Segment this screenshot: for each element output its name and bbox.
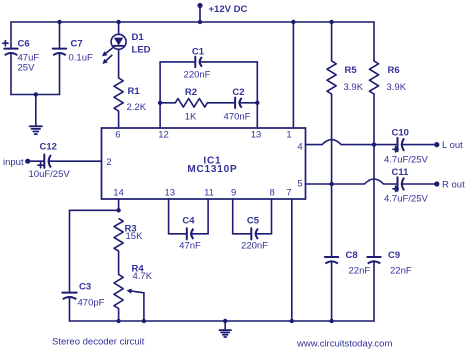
pin 6 label (115, 130, 120, 141)
svg-text:D1: D1 (132, 32, 145, 43)
pin 4 label (297, 142, 302, 153)
svg-text:13: 13 (165, 187, 176, 198)
wire C10 to L out (401, 144, 436, 146)
svg-text:9: 9 (231, 187, 236, 198)
svg-text:C9: C9 (388, 250, 400, 261)
pin 8 label (270, 187, 275, 198)
node bottom ground junction (223, 319, 227, 323)
capacitor C10 (384, 127, 428, 165)
wire R5 top lead (331, 22, 333, 61)
pin 2 label (106, 157, 111, 168)
wire C6 bottom lead (10, 54, 12, 95)
wire C6-C7 bottom join (11, 94, 60, 96)
wire pin14 stub (118, 199, 120, 210)
svg-text:4.7K: 4.7K (133, 271, 153, 282)
svg-text:C1: C1 (192, 47, 205, 58)
wire C12 to pin2 (48, 160, 101, 162)
wire R3-R4 (118, 251, 120, 275)
svg-text:10uF/25V: 10uF/25V (29, 169, 71, 180)
pin 7 label (286, 187, 291, 198)
node wiper bottom junction (142, 319, 146, 323)
capacitor C4 (179, 216, 201, 252)
svg-text:22nF: 22nF (349, 266, 371, 277)
svg-text:C3: C3 (79, 282, 91, 293)
svg-text:R1: R1 (128, 86, 141, 97)
node C7 rail junction (57, 20, 61, 24)
capacitor C8 (325, 250, 370, 277)
resistor R4 (preset) (114, 264, 153, 309)
wire hop over R5 (322, 140, 341, 145)
wire C9 bottom lead (373, 262, 375, 321)
wire top supply rail (11, 21, 374, 23)
resistor R3 (114, 219, 143, 252)
wire R2-C2 (207, 102, 235, 104)
svg-text:www.circuitstoday.com: www.circuitstoday.com (296, 339, 392, 350)
wire C3 top lead (69, 210, 71, 292)
R4 wiper arm (127, 289, 144, 322)
wire hop over R6 (365, 179, 384, 184)
svg-text:220nF: 220nF (184, 70, 211, 81)
node input terminal (3, 157, 30, 168)
svg-text:Stereo decoder circuit: Stereo decoder circuit (52, 337, 145, 348)
svg-text:6: 6 (115, 130, 120, 141)
wire R4 bottom lead (118, 309, 120, 322)
svg-text:4: 4 (297, 142, 302, 153)
wire bottom ground stem (224, 321, 226, 329)
capacitor C2 (224, 87, 251, 123)
wire C1 right (199, 61, 257, 63)
node R out terminal (434, 180, 465, 191)
wire R6 down (373, 94, 375, 257)
svg-text:5: 5 (297, 179, 302, 190)
svg-text:3.9K: 3.9K (387, 82, 407, 93)
svg-text:4.7uF/25V: 4.7uF/25V (384, 194, 428, 205)
svg-text:C4: C4 (182, 216, 195, 227)
svg-text:470nF: 470nF (224, 112, 251, 123)
node R2 left junction (158, 101, 162, 105)
svg-text:2.2K: 2.2K (127, 102, 147, 113)
wire pin9 stub (232, 199, 234, 234)
wire pin11 stub (207, 199, 209, 234)
pin 13 label (bottom) (165, 187, 176, 198)
svg-text:R6: R6 (388, 65, 400, 76)
node R5 pin5 junction (329, 182, 333, 186)
svg-text:13: 13 (251, 130, 262, 141)
svg-text:LED: LED (132, 45, 151, 56)
wire to C11 (384, 183, 398, 185)
svg-text:R out: R out (442, 180, 465, 191)
resistor R6 (369, 61, 406, 94)
wire C6 top lead (10, 22, 12, 49)
svg-text:220nF: 220nF (241, 241, 268, 252)
resistor R5 (327, 61, 364, 94)
node pin7 bottom junction (290, 319, 294, 323)
wire C1 left (160, 61, 195, 63)
svg-text:C6: C6 (18, 39, 30, 50)
wire pin4 to R6 (341, 144, 374, 146)
ground (30, 126, 42, 134)
svg-text:MC1310P: MC1310P (187, 164, 237, 175)
node ground junction (34, 92, 38, 96)
svg-text:+12V DC: +12V DC (209, 4, 248, 15)
svg-text:15K: 15K (126, 231, 144, 242)
wire C11 to R out (401, 183, 436, 185)
resistor R2 (175, 87, 207, 123)
capacitor C1 (184, 47, 211, 81)
svg-text:11: 11 (204, 187, 214, 198)
wire pin5 to R6 (332, 183, 365, 185)
wire C7 bottom lead (59, 54, 61, 95)
pin 14 label (113, 187, 124, 198)
svg-text:47nF: 47nF (179, 241, 201, 252)
wire R5 down (331, 94, 333, 257)
svg-text:1: 1 (286, 130, 291, 141)
wire C5 left (233, 233, 252, 235)
pin 11 label (204, 187, 214, 198)
wire pin14 to C3 branch (70, 209, 119, 211)
node L out terminal (434, 140, 463, 151)
wire pin13 riser (256, 62, 258, 128)
node D1 rail junction (116, 20, 120, 24)
svg-text:C11: C11 (392, 167, 410, 178)
svg-text:C5: C5 (247, 216, 260, 227)
svg-text:0.1uF: 0.1uF (69, 53, 93, 64)
wire pin12 riser (159, 62, 161, 128)
svg-text:3.9K: 3.9K (344, 82, 364, 93)
wire R1-pin6 (118, 111, 120, 128)
wire C4 right (191, 233, 208, 235)
capacitor C7 (53, 39, 93, 64)
ground (219, 330, 231, 337)
caption: Stereo decoder circuit (52, 337, 145, 348)
LED D1 (102, 32, 151, 64)
svg-text:14: 14 (113, 187, 124, 198)
svg-text:7: 7 (286, 187, 291, 198)
wire R6 to C10 (374, 144, 398, 146)
pin 13 label (251, 130, 262, 141)
wire pin1 to rail (292, 22, 294, 128)
node R4 bottom junction (116, 319, 120, 323)
wire D1 top lead (118, 22, 120, 34)
pin 1 label (286, 130, 291, 141)
pin 9 label (231, 187, 236, 198)
wire pin13 stub (168, 199, 170, 234)
svg-text:2: 2 (106, 157, 111, 168)
wire input to C12 (28, 160, 45, 162)
wire ground stem (35, 95, 37, 126)
wire pin8 stub (271, 199, 273, 234)
svg-text:470pF: 470pF (78, 298, 105, 309)
wire C2 right lead (239, 102, 257, 104)
node pin14 junction (116, 208, 120, 212)
capacitor C5 (241, 216, 268, 252)
node R5 rail junction (329, 20, 333, 24)
svg-text:C10: C10 (392, 127, 409, 138)
wire pin5 out (306, 183, 332, 185)
svg-text:C2: C2 (232, 87, 244, 98)
node C2 right junction (255, 101, 259, 105)
wire C7 top lead (59, 22, 61, 49)
wire pin7 down (291, 199, 293, 321)
wire R2 left lead (160, 102, 175, 104)
svg-text:25V: 25V (18, 63, 36, 74)
svg-text:4.7uF/25V: 4.7uF/25V (384, 155, 428, 166)
+12V DC supply terminal (197, 3, 247, 24)
wire bottom rail (70, 320, 375, 322)
resistor R1 (114, 78, 147, 113)
svg-text:C12: C12 (40, 142, 57, 153)
capacitor C9 (367, 250, 412, 277)
wire C5 right (255, 233, 271, 235)
capacitor C12 (29, 142, 71, 181)
svg-text:8: 8 (270, 187, 275, 198)
node C8 bottom junction (329, 319, 333, 323)
svg-text:C7: C7 (71, 39, 83, 50)
node R6 pin4 junction (372, 142, 376, 146)
capacitor C11 (384, 167, 428, 205)
pin 5 label (297, 179, 302, 190)
wire R6 top lead (373, 22, 375, 61)
svg-text:12: 12 (158, 130, 169, 141)
svg-text:R2: R2 (185, 87, 197, 98)
capacitor C6 (3, 39, 40, 74)
wire D1-R1 (118, 49, 120, 78)
node pin1 rail junction (291, 20, 295, 24)
wire C4 left (169, 233, 187, 235)
svg-text:22nF: 22nF (390, 266, 412, 277)
svg-text:1K: 1K (185, 112, 197, 123)
op-amp U1 body: IC1 MC1310P (102, 128, 306, 199)
caption: www.circuitstoday.com (296, 339, 392, 350)
wire C8 bottom lead (331, 262, 333, 321)
svg-text:L out: L out (442, 140, 463, 151)
pin 12 label (158, 130, 169, 141)
svg-text:input: input (3, 157, 24, 168)
svg-text:R5: R5 (345, 65, 358, 76)
wire C3 bottom lead (69, 298, 71, 321)
wire pin4 out (306, 144, 323, 146)
capacitor C3 (62, 282, 104, 309)
svg-text:C8: C8 (346, 250, 358, 261)
